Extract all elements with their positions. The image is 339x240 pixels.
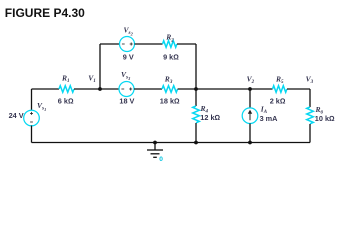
wire: left riser from node V1 up to top branch	[99, 44, 101, 89]
wire: left branch lower segment	[31, 126, 33, 143]
svg-text:9 V: 9 V	[123, 53, 134, 62]
resistor R4 (12 kOhm)	[193, 106, 200, 123]
junction at R4 branch	[194, 87, 198, 91]
svg-text:2 kΩ: 2 kΩ	[270, 97, 286, 106]
wire: R4 branch lower stub	[195, 123, 197, 143]
wire: right riser from top branch down to middle wire	[195, 44, 197, 89]
ground	[147, 143, 163, 158]
svg-text:Vs2: Vs2	[124, 26, 134, 37]
wire: top branch, segment between VS2 and R2	[135, 43, 163, 45]
svg-text:3 mA: 3 mA	[260, 114, 279, 123]
voltage source VS1 (24 V)	[24, 110, 40, 126]
junction current source bottom	[248, 141, 252, 145]
svg-text:6 kΩ: 6 kΩ	[58, 97, 74, 106]
svg-text:Vs3: Vs3	[121, 70, 131, 81]
wire: middle wire, R5 to right corner	[287, 88, 310, 90]
wire: R6 branch upper stub	[309, 89, 311, 107]
current source IA (3 mA)	[242, 108, 258, 124]
svg-text:24 V: 24 V	[9, 111, 24, 120]
wire: R6 branch lower stub	[309, 124, 311, 143]
resistor R1 (6 kOhm)	[59, 86, 74, 93]
junction ground	[153, 141, 157, 145]
wire: middle wire, R3 to node V2	[178, 88, 273, 90]
svg-text:R2: R2	[165, 33, 174, 44]
junction node V1	[98, 87, 102, 91]
voltage source VS3 (18 V)	[119, 82, 134, 97]
svg-text:R5: R5	[275, 74, 284, 85]
svg-text:FIGURE P4.30: FIGURE P4.30	[5, 6, 85, 20]
svg-text:V3: V3	[306, 74, 314, 85]
wire: bottom wire	[32, 142, 311, 144]
resistor R5 (2 kOhm)	[273, 86, 287, 93]
svg-text:R3: R3	[164, 74, 173, 85]
wire: top branch, right segment	[177, 43, 196, 45]
svg-text:Vs1: Vs1	[37, 101, 46, 112]
svg-text:12 kΩ: 12 kΩ	[200, 113, 220, 122]
resistor R2 (9 kOhm)	[163, 41, 177, 48]
junction R4 bottom	[194, 141, 198, 145]
svg-text:18 kΩ: 18 kΩ	[160, 97, 180, 106]
svg-text:10 kΩ: 10 kΩ	[315, 114, 335, 123]
wire: top branch, left segment to VS2	[100, 43, 120, 45]
voltage source VS2 (9 V)	[120, 37, 135, 52]
svg-text:18 V: 18 V	[119, 97, 134, 106]
svg-text:V1: V1	[88, 73, 96, 84]
resistor R6 (10 kOhm)	[307, 107, 314, 124]
wire: current source branch lower stub	[249, 123, 251, 142]
svg-text:0: 0	[159, 156, 163, 163]
wire: left branch upper segment	[31, 89, 33, 111]
wire: middle wire, R1 to VS3	[74, 88, 120, 90]
wire: middle wire, VS3 to R3	[134, 88, 162, 90]
wire: R4 branch upper stub	[195, 89, 197, 106]
junction node V2	[248, 87, 252, 91]
wire: middle wire, left corner to R1	[32, 88, 60, 90]
resistor R3 (18 kOhm)	[162, 86, 178, 93]
svg-text:V2: V2	[247, 74, 255, 85]
svg-text:R1: R1	[61, 73, 70, 84]
wire: current source branch upper stub	[249, 89, 251, 108]
svg-text:9 kΩ: 9 kΩ	[163, 53, 179, 62]
